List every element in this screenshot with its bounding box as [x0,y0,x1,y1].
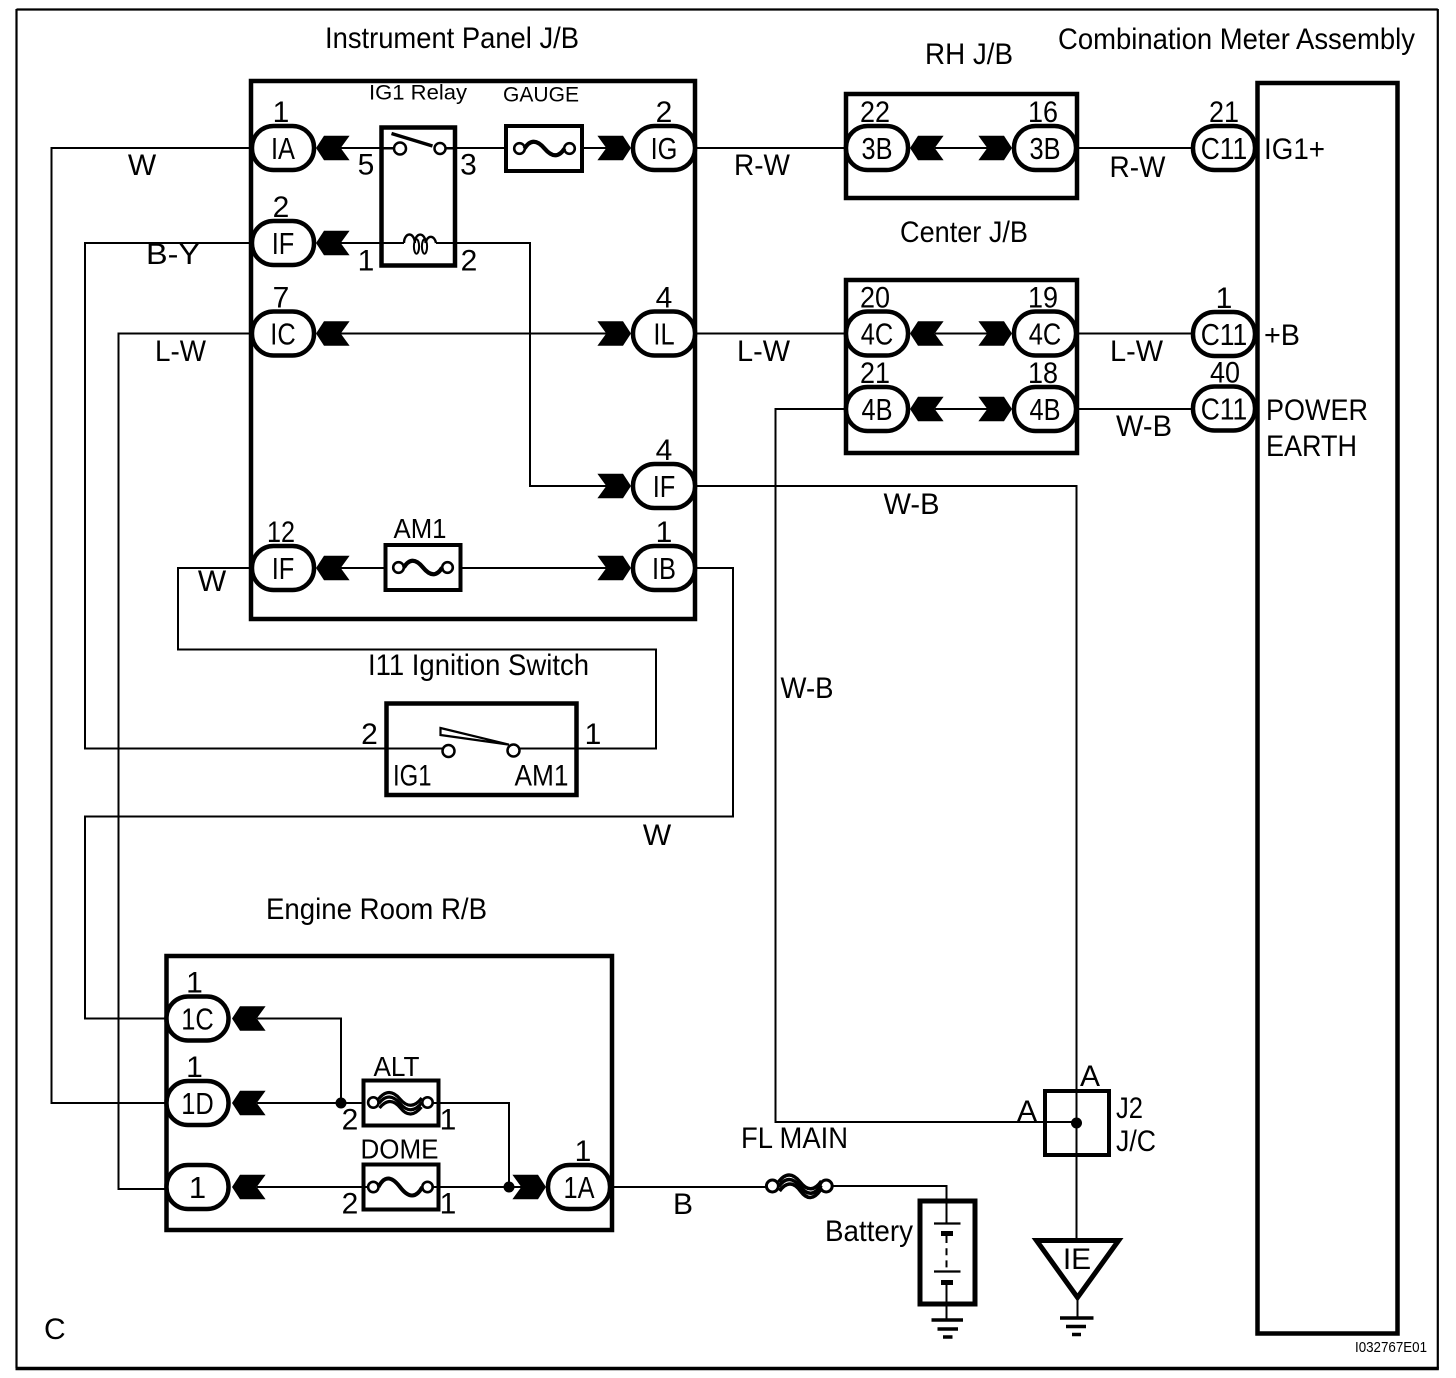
svg-text:Battery: Battery [825,1215,913,1248]
wire between 4B arrows [935,408,988,410]
wire between 4C arrows [935,333,988,335]
svg-text:4C: 4C [861,317,894,352]
svg-text:4: 4 [656,434,673,467]
svg-text:R-W: R-W [1110,151,1167,184]
svg-text:2: 2 [461,245,478,278]
svg-text:7: 7 [273,282,290,315]
wire B-Y: from IF(2) to ignition switch pin 2 [85,243,385,749]
svg-text:Combination Meter Assembly: Combination Meter Assembly [1058,23,1415,56]
svg-text:IB: IB [652,551,676,586]
Combination Meter Assembly box [1258,83,1398,1334]
svg-text:1: 1 [358,245,375,278]
connector C11 pin 1 [1193,282,1255,356]
svg-text:A: A [1080,1060,1100,1093]
connector IG pin 2 [597,96,695,170]
connector IF pin 4 [597,434,695,508]
connector 4C pin 20 [846,282,944,356]
svg-text:18: 18 [1028,357,1058,390]
svg-text:B: B [673,1188,693,1221]
wire 4B(21) left to J2 left pin A [776,409,1077,1122]
connector 1A pin 1 [512,1135,610,1209]
svg-text:IG: IG [651,131,678,166]
wire inside IP: IF(12) arrow to AM1 fuse [340,567,394,569]
svg-text:Engine Room R/B: Engine Room R/B [266,893,487,926]
connector 3B pin 22 [846,96,944,170]
wire IF(4) right to J2 top pin A [695,486,1077,1091]
wire DOME pin 1 to 1A arrow with junction [433,1186,522,1188]
svg-text:4: 4 [656,282,673,315]
svg-text:1: 1 [575,1135,592,1168]
svg-text:2: 2 [342,1188,359,1221]
svg-text:J2: J2 [1116,1092,1143,1125]
svg-text:L-W: L-W [1110,335,1164,368]
svg-text:2: 2 [361,718,378,751]
svg-text:3: 3 [460,149,477,182]
svg-text:1: 1 [440,1188,457,1221]
connector 4B pin 21 [846,357,944,431]
connector 3B pin 16 [978,96,1076,170]
svg-text:1: 1 [273,96,290,129]
wire FL MAIN to battery [832,1186,946,1201]
wire through J2 to IE ground triangle [1076,1091,1078,1241]
svg-text:R-W: R-W [734,149,791,182]
svg-text:2: 2 [273,191,290,224]
svg-text:20: 20 [860,282,890,315]
wire W: from IA left [52,148,253,1103]
wire 4C(19) to C11(1) [1076,333,1193,335]
connector IC pin 7 [252,282,350,356]
wire ALT pin 1 down to DOME output junction [433,1103,509,1187]
svg-text:EARTH: EARTH [1266,430,1357,463]
svg-text:1C: 1C [181,1002,214,1037]
connector 1 (bottom left) [167,1165,266,1209]
svg-text:FL MAIN: FL MAIN [741,1122,848,1155]
fuse AM1 [386,513,461,590]
svg-text:3B: 3B [862,131,893,166]
svg-text:IG1 Relay: IG1 Relay [369,82,468,105]
svg-text:DOME: DOME [361,1134,439,1165]
connector IF pin 2 [252,191,350,265]
svg-text:4B: 4B [862,392,893,427]
svg-text:1: 1 [585,718,602,751]
svg-text:16: 16 [1028,96,1058,129]
wire 1D arrow to ALT pin 2 [257,1102,369,1104]
svg-text:W-B: W-B [781,672,834,705]
wire 1C arrow to junction above ALT pin 2 [257,1019,341,1104]
svg-text:W: W [198,565,227,598]
svg-text:W: W [128,149,157,182]
svg-text:W-B: W-B [1116,410,1172,443]
battery [825,1201,975,1304]
svg-text:IA: IA [271,131,295,166]
svg-text:3B: 3B [1030,131,1061,166]
wire inside IP: AM1 fuse to IB arrow [443,567,608,569]
wire inside IP: IF(2) arrow to relay coil pin 1 [340,242,404,244]
svg-text:5: 5 [358,149,375,182]
svg-text:IF: IF [272,551,295,586]
connector IB pin 1 [597,516,695,590]
svg-text:A: A [1017,1095,1037,1128]
junction node at ALT pin 2 [336,1098,347,1109]
svg-text:1: 1 [186,967,203,1000]
svg-text:1: 1 [186,1051,203,1084]
wire 1 arrow to DOME pin 2 [257,1186,369,1188]
svg-text:I11 Ignition Switch: I11 Ignition Switch [368,649,589,682]
svg-text:C11: C11 [1201,317,1248,352]
wire W: from IF(12) to ignition switch pin 1 [178,568,656,749]
svg-text:W-B: W-B [884,488,940,521]
svg-text:IG1: IG1 [393,760,432,793]
ground below IE [1060,1298,1094,1335]
connector 4B pin 18 [978,357,1076,431]
svg-text:C11: C11 [1201,131,1248,166]
svg-text:2: 2 [342,1104,359,1137]
svg-text:2: 2 [656,96,673,129]
svg-text:1: 1 [1216,282,1233,315]
wire 1A to FL MAIN [610,1186,767,1188]
junction node before 1A [504,1182,515,1193]
svg-text:GAUGE: GAUGE [503,84,579,107]
svg-text:B-Y: B-Y [146,238,200,271]
wire inside IP: IA arrow to relay pin 5 [340,147,394,149]
svg-text:IF: IF [653,469,676,504]
svg-text:C11: C11 [1201,392,1248,427]
svg-text:I032767E01: I032767E01 [1355,1339,1427,1356]
svg-text:Instrument Panel J/B: Instrument Panel J/B [325,22,579,55]
svg-text:IC: IC [270,317,295,352]
svg-text:Center J/B: Center J/B [900,216,1028,249]
svg-text:AM1: AM1 [394,513,447,544]
svg-text:22: 22 [860,96,890,129]
svg-text:1A: 1A [564,1170,595,1205]
connector C11 pin 21 [1193,96,1255,170]
svg-text:J/C: J/C [1116,1125,1156,1158]
svg-text:AM1: AM1 [515,760,569,793]
wire between 3B arrows [935,147,988,149]
svg-text:C: C [44,1313,66,1346]
junction connector J2 J/C [1017,1060,1156,1158]
IG1 Relay U1 [358,82,478,278]
ground triangle IE [1037,1241,1119,1298]
svg-text:IG1+: IG1+ [1264,133,1325,166]
connector IF pin 12 [252,516,350,590]
wire IG to RH J/B 3B(22) [695,147,846,149]
wire relay coil pin 2 to vertical, down to IF(4) arrow [436,243,607,486]
svg-text:IE: IE [1063,1243,1091,1276]
svg-text:21: 21 [1209,96,1239,129]
svg-text:40: 40 [1210,357,1240,390]
connector 4C pin 19 [978,282,1076,356]
connector 1C pin 1 [167,967,266,1041]
wire IL to Center J/B 4C(20) [695,333,846,335]
svg-text:ALT: ALT [374,1051,420,1082]
svg-text:21: 21 [860,357,890,390]
svg-text:4B: 4B [1030,392,1061,427]
svg-text:12: 12 [267,516,295,549]
svg-text:L-W: L-W [737,335,791,368]
svg-text:1: 1 [656,516,673,549]
svg-text:IL: IL [653,317,674,352]
svg-text:4C: 4C [1029,317,1062,352]
connector IA pin 1 [252,96,350,170]
svg-text:RH J/B: RH J/B [925,38,1013,71]
fuse GAUGE [503,84,582,172]
wire 3B(16) to C11(21) [1076,147,1193,149]
Engine Room R/B box [167,956,613,1230]
ground below battery [932,1304,964,1337]
connector 1D pin 1 [167,1051,266,1125]
Center J/B box [846,280,1077,453]
svg-text:1: 1 [440,1104,457,1137]
wire inside IP: GAUGE to IG arrow [575,147,608,149]
svg-text:IF: IF [272,226,295,261]
wire inside IP: IC arrow to IL arrow [340,333,607,335]
svg-text:POWER: POWER [1266,394,1368,427]
connector C11 pin 40 [1193,357,1255,431]
wire 4B(18) to C11(40) [1076,408,1193,410]
RH J/B box [846,94,1077,198]
svg-text:W: W [643,819,672,852]
fuse DOME [342,1134,457,1221]
svg-text:1D: 1D [181,1086,214,1121]
Instrument Panel J/B box [251,81,695,619]
svg-text:19: 19 [1028,282,1058,315]
connector IL pin 4 [597,282,695,356]
I11 Ignition Switch box [361,704,601,796]
fusible link FL MAIN [741,1122,848,1198]
fuse ALT [342,1051,457,1137]
wire L-W: from IC to Engine Room connector 1 [119,334,253,1190]
svg-text:L-W: L-W [155,335,207,368]
wire inside IP: relay pin 3 to GAUGE fuse [446,147,515,149]
wire W: from IB down-left to Engine Room 1C [85,568,733,1019]
svg-text:+B: +B [1264,319,1300,352]
svg-text:1: 1 [189,1170,206,1205]
